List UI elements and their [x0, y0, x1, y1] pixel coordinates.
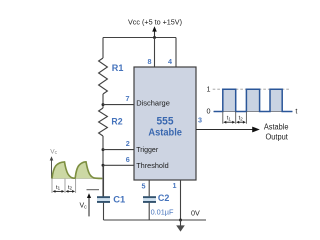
svg-text:t: t — [295, 107, 297, 116]
green waveform axis vertical — [50, 156, 54, 178]
svg-text:6: 6 — [126, 155, 130, 164]
output t2 arrow — [236, 121, 246, 124]
svg-text:7: 7 — [126, 94, 130, 103]
svg-text:Vc: Vc — [50, 148, 57, 156]
wire discharge pin7 — [103, 104, 134, 106]
wire output pin3 — [196, 129, 253, 131]
svg-text:Output: Output — [266, 132, 289, 141]
square wave — [214, 89, 293, 111]
svg-text:R2: R2 — [111, 117, 122, 128]
svg-text:2: 2 — [126, 139, 130, 148]
svg-text:5: 5 — [142, 181, 146, 190]
output arrowhead — [252, 127, 260, 133]
wire C1 top — [103, 165, 105, 196]
wire pin 4 — [175, 38, 177, 68]
svg-text:t1: t1 — [56, 185, 61, 191]
capacitor C1 — [97, 196, 110, 203]
svg-text:t1: t1 — [227, 116, 232, 122]
wire bus R1 to R2 — [102, 94, 104, 108]
ground — [176, 220, 185, 232]
green waveform baseline — [52, 178, 103, 180]
green t1 arrow — [53, 190, 65, 193]
resistor R1 — [99, 58, 108, 94]
svg-text:R1: R1 — [112, 63, 124, 74]
green t ticks — [52, 179, 76, 194]
svg-text:8: 8 — [148, 57, 152, 66]
svg-text:Trigger: Trigger — [136, 145, 158, 154]
node threshold junction — [102, 164, 105, 167]
svg-text:Vcc (+5 to +15V): Vcc (+5 to +15V) — [128, 18, 182, 27]
output t1 arrow — [223, 121, 235, 124]
svg-text:Astable: Astable — [148, 127, 182, 139]
output wave axis — [214, 111, 293, 113]
node junction rail/pin8 — [153, 36, 156, 39]
svg-text:0.01µF: 0.01µF — [151, 208, 174, 217]
annotation Vc reference line — [87, 189, 100, 191]
svg-text:Discharge: Discharge — [136, 99, 170, 108]
node ground junction — [179, 219, 182, 222]
node trigger junction — [102, 148, 105, 151]
svg-text:t2: t2 — [68, 185, 73, 191]
wire left bus upper — [102, 38, 104, 59]
svg-text:1: 1 — [207, 85, 211, 94]
wire top Vcc rail — [103, 37, 176, 39]
wire threshold pin6 — [103, 164, 134, 166]
wire pin1 to rail — [180, 180, 182, 220]
op IC 555 body — [134, 67, 196, 180]
output t ticks — [223, 112, 247, 124]
svg-text:0: 0 — [207, 107, 211, 116]
wire pin5 to C2 — [148, 180, 150, 196]
wire bus R2 down to C1 — [102, 136, 104, 198]
wire pin 8 — [154, 38, 156, 68]
power Vcc arrow — [152, 26, 157, 37]
svg-text:0V: 0V — [191, 209, 200, 218]
wire C1 to rail — [103, 203, 105, 220]
annotation Vc arrow — [87, 193, 91, 216]
wire C2 to rail — [148, 203, 150, 220]
svg-text:C1: C1 — [113, 195, 126, 206]
green capacitor waveform — [52, 162, 102, 179]
svg-text:C2: C2 — [158, 193, 170, 204]
svg-text:3: 3 — [198, 115, 202, 124]
svg-text:Vc: Vc — [80, 202, 88, 210]
svg-text:4: 4 — [168, 57, 172, 66]
wire trigger pin2 — [103, 149, 134, 151]
svg-text:t2: t2 — [239, 116, 244, 122]
output wave dashed level line — [213, 88, 290, 90]
label Astable Output — [264, 123, 289, 142]
node discharge junction — [102, 103, 105, 106]
svg-text:Threshold: Threshold — [136, 161, 169, 170]
wire bottom rail — [104, 219, 207, 221]
resistor R2 — [99, 108, 108, 136]
svg-text:Astable: Astable — [264, 123, 289, 132]
svg-text:1: 1 — [173, 181, 177, 190]
green t2 arrow — [66, 190, 76, 193]
capacitor C2 — [143, 196, 156, 203]
